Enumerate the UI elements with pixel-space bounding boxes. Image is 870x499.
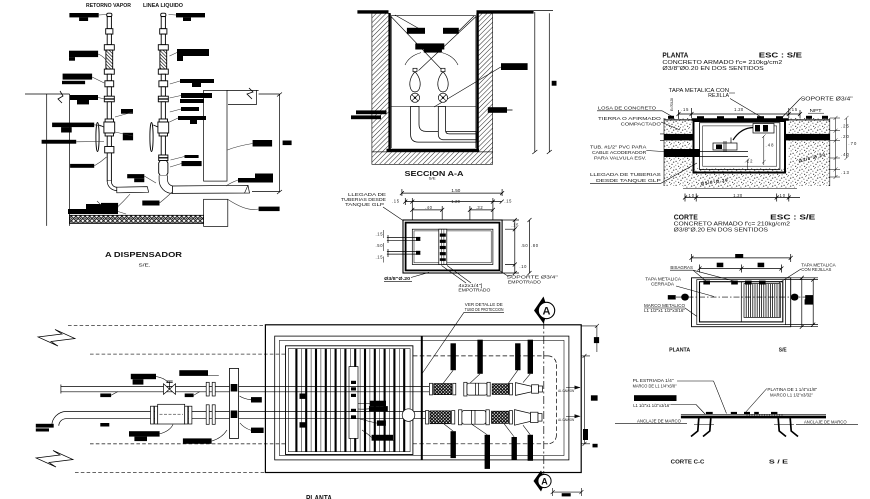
- section marker A (bottom): [534, 471, 544, 492]
- svg-text:.32: .32: [476, 205, 484, 210]
- svg-text:L1 1/2"x1 1/2"x3/16": L1 1/2"x1 1/2"x3/16": [633, 403, 671, 408]
- ESV valve right: [441, 68, 445, 71]
- svg-text:PARA VALVULA ESV.: PARA VALVULA ESV.: [594, 156, 646, 161]
- box walls: [694, 121, 786, 173]
- svg-text:CORTE: CORTE: [674, 215, 698, 222]
- title A DISPENSADOR: [105, 250, 183, 268]
- right frame anchor: [778, 418, 798, 436]
- svg-text:.15: .15: [376, 232, 384, 237]
- svg-text:PL ESTRIADA 1/4": PL ESTRIADA 1/4": [633, 378, 675, 383]
- svg-text:.10: .10: [519, 264, 527, 269]
- CORTE heading + notes: [674, 215, 816, 234]
- svg-text:ANCLAJE DE MARCO: ANCLAJE DE MARCO: [804, 420, 847, 425]
- AL CAMION arrows: [558, 386, 580, 423]
- svg-text:NPT: NPT: [810, 108, 823, 113]
- black bar sample: [634, 395, 677, 401]
- dispensador label bars (illegible annotations): [42, 13, 280, 214]
- checker lugs on plate: [706, 412, 778, 415]
- pit wall thick inner edges: [388, 13, 390, 150]
- svg-text:CONCRETO ARMADO f'c= 210kg/cm2: CONCRETO ARMADO f'c= 210kg/cm2: [662, 60, 782, 66]
- svg-text:SOPORTE Ø3/4": SOPORTE Ø3/4": [801, 96, 853, 102]
- bars lower middle: [127, 174, 144, 178]
- centerline with end handles: [676, 296, 806, 298]
- flange: [158, 69, 168, 74]
- svg-text:S / E: S / E: [769, 460, 788, 466]
- svg-text:.40: .40: [841, 152, 850, 157]
- anchor plate crossing pipes: [230, 368, 239, 438]
- svg-text:Ø3/8"Ø.20 EN DOS SENTIDOS: Ø3/8"Ø.20 EN DOS SENTIDOS: [674, 228, 769, 234]
- right dimension lines: [532, 11, 553, 155]
- embedded channel 4x2x1/4 (hatched strip): [439, 229, 447, 264]
- svg-text:.50: .50: [376, 243, 384, 248]
- left pipe elbow to horizontal: [107, 181, 148, 193]
- svg-text:TANQUE GLP: TANQUE GLP: [345, 202, 384, 207]
- svg-text:LLEGADA DE TUBERIAS: LLEGADA DE TUBERIAS: [590, 172, 662, 178]
- svg-text:1.20: 1.20: [451, 199, 460, 204]
- svg-text:.25: .25: [841, 123, 850, 128]
- flange pair lower: [206, 405, 209, 425]
- inner dims: [762, 134, 766, 165]
- pedestal under right wall: [204, 199, 228, 226]
- svg-text:PLANTA: PLANTA: [306, 494, 332, 499]
- svg-text:AL CAMION: AL CAMION: [558, 418, 575, 422]
- leaders from bars to fittings: [443, 370, 530, 437]
- pit inner lining: [391, 16, 476, 148]
- ball valve with lever: [159, 119, 167, 122]
- svg-text:.10: .10: [778, 193, 786, 198]
- pipe cap: [161, 13, 166, 16]
- left riser pipe (RETORNO VAPOR): [96, 13, 115, 181]
- second narrow pipe: [438, 107, 476, 140]
- section cut dash-dot line: [543, 321, 545, 475]
- svg-text:1.20: 1.20: [734, 107, 744, 112]
- svg-text:.20: .20: [841, 134, 850, 139]
- label LLEGADA DE TUBERIAS DESDE TANQUE GLP: [341, 192, 386, 207]
- ground break symbol left: [58, 91, 63, 103]
- flange pair: [104, 96, 114, 99]
- divider wall: [421, 336, 423, 460]
- svg-text:A: A: [541, 476, 548, 486]
- flange pair: [158, 96, 168, 99]
- bottom horizontal pipe (wide) with elbow: [411, 107, 476, 143]
- interior equipment: [664, 149, 700, 157]
- grating panel frame: [286, 346, 413, 455]
- right edge dimension marks: [581, 324, 599, 352]
- svg-text:.40: .40: [425, 205, 433, 210]
- flange pair upper: [206, 382, 209, 396]
- black slab bands left & right: [664, 134, 694, 141]
- flange: [104, 45, 114, 50]
- hatched pit walls: [372, 13, 390, 152]
- second dim line: [698, 265, 784, 273]
- pipe cap: [107, 13, 112, 16]
- small square labels between pipes: [121, 109, 133, 114]
- pipe body: [161, 17, 165, 29]
- svg-text:S/E: S/E: [429, 177, 437, 181]
- left frame anchor: [691, 418, 711, 436]
- svg-text:ESC : S/E: ESC : S/E: [759, 50, 802, 59]
- svg-text:.70: .70: [848, 141, 857, 146]
- right dim lines: [791, 276, 818, 329]
- dispensador leader lines: [76, 15, 258, 215]
- svg-text:CON REJILLAS: CON REJILLAS: [801, 267, 831, 272]
- svg-text:.15: .15: [790, 107, 798, 112]
- svg-text:.10: .10: [687, 193, 695, 198]
- svg-text:E=703.20: E=703.20: [670, 98, 674, 111]
- svg-text:.15: .15: [392, 199, 400, 204]
- svg-text:MARCO L1 1/2"x3/32": MARCO L1 1/2"x3/32": [770, 392, 814, 397]
- bars far right: [253, 140, 273, 147]
- crossing leader diagonals: [392, 17, 443, 71]
- bell union: [159, 161, 168, 176]
- label bars left zone: [100, 370, 393, 444]
- right side stub with bar: [488, 107, 507, 113]
- ground/top cover thick line with bolt lugs: [664, 119, 830, 121]
- flex hose: [106, 50, 113, 69]
- top dim line: [690, 254, 793, 262]
- right dimension line: [252, 93, 282, 195]
- flange pair: [159, 155, 168, 158]
- flange: [104, 69, 114, 74]
- lower pipe left elbow: [52, 412, 66, 426]
- svg-text:L1 1/2"x1 1/2"x3/16": L1 1/2"x1 1/2"x3/16": [644, 308, 685, 313]
- svg-text:RETORNO VAPOR: RETORNO VAPOR: [86, 3, 131, 9]
- svg-text:.22: .22: [745, 159, 754, 164]
- gravel strip: [70, 215, 204, 223]
- svg-text:.13: .13: [841, 170, 850, 175]
- svg-text:EMPOTRADO: EMPOTRADO: [508, 280, 542, 285]
- svg-text:Ø3/8"Ø.20: Ø3/8"Ø.20: [384, 276, 411, 281]
- union: [159, 81, 168, 87]
- outline of soil block: [664, 118, 830, 189]
- right dim stack: [830, 116, 840, 179]
- dim .40 and .32: [410, 206, 444, 220]
- svg-text:ESC : S/E: ESC : S/E: [770, 215, 816, 222]
- svg-text:.15: .15: [511, 223, 519, 228]
- ball valve with lever: [105, 119, 113, 122]
- pipe body: [107, 17, 111, 29]
- svg-text:.48: .48: [766, 142, 775, 147]
- svg-text:TIERRA O AFIRMADO: TIERRA O AFIRMADO: [598, 116, 661, 122]
- dim 1.50: [400, 189, 504, 196]
- right label bar with leader: [501, 63, 528, 70]
- coupling: [160, 29, 167, 34]
- union flange: [105, 147, 114, 153]
- coupling: [106, 29, 113, 34]
- svg-text:PLANTA: PLANTA: [669, 347, 691, 353]
- right wall column: [204, 90, 227, 181]
- svg-text:CERRADA: CERRADA: [651, 281, 674, 286]
- cover rectangles: [692, 278, 791, 327]
- svg-text:.80: .80: [531, 243, 539, 248]
- svg-text:1.20: 1.20: [733, 193, 743, 198]
- svg-text:MARCO DE L1 1/4"x3/8": MARCO DE L1 1/4"x3/8": [633, 384, 677, 389]
- flange: [158, 45, 168, 50]
- svg-text:S/E.: S/E.: [139, 263, 151, 268]
- bars right of right riser: [176, 13, 205, 17]
- svg-text:.15: .15: [376, 255, 384, 260]
- right riser pipe (LINEA LIQUIDO): [150, 13, 169, 175]
- svg-text:S/E: S/E: [779, 347, 787, 353]
- ESV box on lower pipe: [151, 406, 154, 424]
- dim text blob: [283, 141, 292, 146]
- outer box R1: [265, 325, 581, 473]
- svg-text:LINEA LIQUIDO: LINEA LIQUIDO: [143, 3, 183, 9]
- in-pit label bars: [407, 28, 425, 34]
- grating bars: [296, 349, 404, 452]
- svg-text:CABLE ACODERADOR: CABLE ACODERADOR: [592, 150, 647, 155]
- svg-text:Ø3/8"Ø0.20 EN DOS SENTIDOS: Ø3/8"Ø0.20 EN DOS SENTIDOS: [662, 66, 764, 72]
- upper pipe: [61, 385, 429, 394]
- protection tube strip: [349, 367, 358, 439]
- break symbol top-left: [38, 330, 75, 347]
- svg-text:SOPORTE Ø3/4": SOPORTE Ø3/4": [507, 274, 559, 279]
- svg-text:TUBO DE PROTECCION: TUBO DE PROTECCION: [465, 307, 504, 312]
- break symbol bottom-left: [36, 451, 73, 468]
- left wall column: [25, 94, 70, 226]
- right pipe elbow and long horizontal pipe: [159, 175, 249, 193]
- box outer wall (thick): [403, 220, 502, 273]
- soil/concrete stipple: [664, 118, 692, 186]
- svg-text:COMPACTADO: COMPACTADO: [621, 122, 661, 128]
- svg-text:CORTE C-C: CORTE C-C: [671, 460, 706, 466]
- svg-text:.15: .15: [504, 199, 512, 204]
- left labels: [590, 106, 662, 184]
- cut-mark bars at lower-left pipe end: [36, 424, 54, 428]
- box inner lining: [412, 229, 493, 264]
- svg-text:BISAGRAS: BISAGRAS: [670, 265, 693, 270]
- ESV valve left (teardrop body + wheel): [413, 68, 417, 71]
- inner box R3: [279, 340, 564, 455]
- svg-text:PLANTA: PLANTA: [662, 50, 688, 59]
- svg-text:1.50: 1.50: [451, 188, 461, 193]
- half divider: [740, 282, 742, 322]
- lower pipe: [66, 412, 430, 419]
- leader from label to box corner: [383, 207, 403, 221]
- dim .15 / 1.20 / .15: [403, 198, 503, 220]
- small valve on upper pipe: [164, 384, 176, 395]
- incoming pipe stubs left: [387, 235, 420, 243]
- small dim bottom right: [551, 488, 584, 496]
- platina hatch ticks: [747, 414, 782, 417]
- svg-text:AL CAMION: AL CAMION: [558, 389, 575, 393]
- section marker A (top): [534, 297, 555, 324]
- cover plate: [681, 416, 826, 419]
- horizontal stub pipe to dispenser: [117, 187, 149, 193]
- hinge tabs: [703, 281, 765, 285]
- svg-text:EMPOTRADO: EMPOTRADO: [458, 288, 491, 293]
- title SECCION A-A: [405, 169, 465, 181]
- left column of label bars: [69, 13, 98, 17]
- inner box R2: [275, 336, 569, 460]
- svg-text:A DISPENSADOR: A DISPENSADOR: [105, 250, 183, 259]
- bottom dim row: [683, 194, 800, 202]
- svg-text:A: A: [543, 306, 551, 318]
- labels above: tapa metalica con rejilla / soporte: [669, 88, 853, 113]
- dim row .15 1.20 .15: [677, 108, 803, 118]
- ground surface thick lines: [357, 10, 388, 13]
- right dims: [502, 218, 519, 275]
- leaders left zone: [111, 376, 377, 442]
- ground line right of column with break: [227, 90, 259, 104]
- trench dashed edges to the left: [68, 325, 265, 327]
- grating (right half): [744, 284, 781, 318]
- svg-text:.50: .50: [521, 243, 529, 248]
- union: [105, 81, 114, 87]
- incoming pipes from tank (solid black): [356, 110, 387, 114]
- svg-text:REJILLA: REJILLA: [708, 93, 730, 99]
- dashed pipe corridor inside pit: [413, 356, 557, 444]
- svg-text:ANCLAJE DE MARCO: ANCLAJE DE MARCO: [637, 418, 682, 423]
- flex hose: [160, 50, 167, 69]
- interior shelf line: [391, 106, 476, 108]
- svg-text:.15: .15: [681, 107, 689, 112]
- rotated label bars around trains: [451, 340, 589, 469]
- svg-text:TUB. #1/2" PVC PARA: TUB. #1/2" PVC PARA: [590, 145, 647, 150]
